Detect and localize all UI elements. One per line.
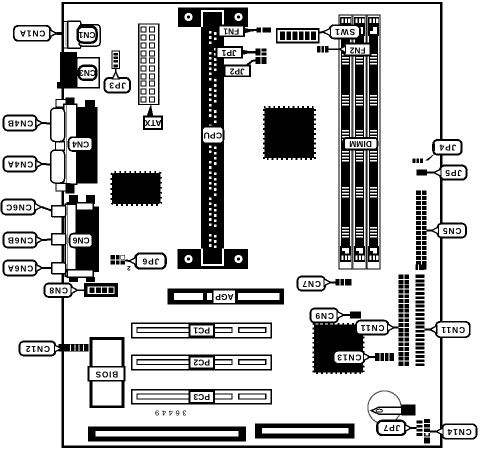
svg-text:FN2: FN2: [349, 45, 365, 54]
svg-text:JP2: JP2: [229, 67, 244, 76]
svg-text:JP7: JP7: [383, 423, 401, 433]
svg-text:CN1: CN1: [78, 30, 95, 40]
svg-text:CN13: CN13: [336, 353, 361, 363]
svg-text:JP4: JP4: [439, 143, 457, 153]
svg-text:JP5: JP5: [444, 168, 462, 178]
svg-text:CN14: CN14: [447, 427, 472, 437]
svg-text:CN6B: CN6B: [7, 235, 33, 245]
svg-text:JP6: JP6: [142, 256, 160, 266]
svg-text:CN4B: CN4B: [7, 118, 33, 128]
svg-text:CN3: CN3: [79, 68, 96, 78]
svg-text:CPU: CPU: [203, 130, 222, 140]
svg-text:CN1A: CN1A: [19, 29, 45, 39]
svg-text:CN6A: CN6A: [7, 263, 33, 273]
svg-text:CN12: CN12: [25, 344, 50, 354]
svg-text:BIOS: BIOS: [95, 369, 118, 378]
svg-text:CN9: CN9: [315, 311, 334, 321]
svg-text:2: 2: [127, 264, 131, 271]
svg-text:ATX: ATX: [144, 118, 161, 128]
svg-text:CN6C: CN6C: [5, 202, 31, 212]
svg-text:SW1: SW1: [334, 27, 355, 37]
svg-text:JP3: JP3: [108, 81, 126, 91]
svg-text:CN4: CN4: [72, 139, 89, 149]
svg-text:CN8: CN8: [49, 286, 68, 296]
svg-text:DIMM: DIMM: [349, 139, 372, 149]
svg-text:JP1: JP1: [221, 48, 236, 57]
svg-text:PC2: PC2: [193, 358, 210, 368]
svg-text:PC1: PC1: [193, 326, 210, 336]
svg-text:CN6: CN6: [72, 236, 89, 246]
svg-text:CN11: CN11: [360, 323, 385, 333]
svg-text:FN1: FN1: [223, 27, 239, 36]
svg-text:AGP: AGP: [215, 292, 234, 302]
svg-text:PC3: PC3: [193, 392, 210, 402]
svg-text:CN4A: CN4A: [7, 159, 33, 169]
svg-text:CN11: CN11: [441, 325, 466, 335]
svg-text:CN5: CN5: [442, 226, 461, 236]
svg-text:CN7: CN7: [302, 279, 321, 289]
svg-text:36449: 36449: [152, 409, 186, 418]
